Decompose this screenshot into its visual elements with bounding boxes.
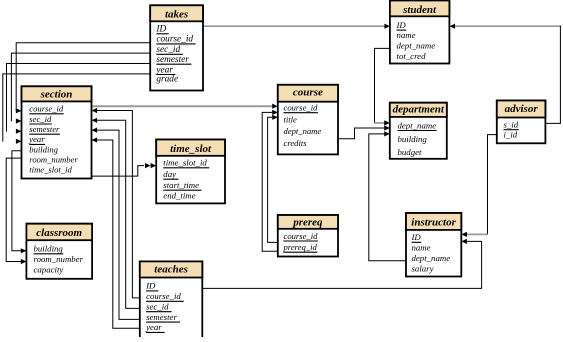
svg-text:year: year xyxy=(145,322,162,332)
table course xyxy=(278,85,338,155)
svg-text:section: section xyxy=(40,88,73,100)
table takes xyxy=(150,5,203,90)
svg-text:dept_name: dept_name xyxy=(284,126,322,136)
svg-text:name: name xyxy=(397,30,416,40)
svg-text:time_slot_id: time_slot_id xyxy=(163,158,207,168)
svg-text:time_slot_id: time_slot_id xyxy=(29,165,72,175)
wire course.dept_name to department xyxy=(338,125,390,138)
svg-text:year: year xyxy=(28,134,45,144)
wire takes.semester to section.semester xyxy=(7,64,151,134)
svg-text:start_time: start_time xyxy=(163,180,199,190)
svg-text:name: name xyxy=(412,243,431,253)
wire takes.year to section.year xyxy=(3,74,150,144)
svg-text:course_id: course_id xyxy=(284,231,319,241)
svg-text:semester: semester xyxy=(156,55,189,65)
svg-text:sec_id: sec_id xyxy=(156,45,180,55)
table time_slot xyxy=(156,140,225,204)
wire instructor.dept_name to department xyxy=(369,131,406,261)
svg-text:dept_name: dept_name xyxy=(397,40,436,50)
svg-text:course_id: course_id xyxy=(284,103,319,113)
svg-text:day: day xyxy=(163,169,176,179)
svg-text:sec_id: sec_id xyxy=(146,302,169,312)
svg-text:course_id: course_id xyxy=(146,291,181,301)
svg-text:semester: semester xyxy=(146,312,177,322)
svg-text:salary: salary xyxy=(412,263,434,273)
svg-text:course_id: course_id xyxy=(29,104,64,114)
wire teaches.year to section.year xyxy=(92,137,140,328)
svg-text:department: department xyxy=(393,104,445,116)
svg-text:title: title xyxy=(284,115,298,125)
svg-text:course_id: course_id xyxy=(156,35,193,45)
table prereq xyxy=(278,215,338,257)
svg-text:room_number: room_number xyxy=(29,155,78,165)
table department xyxy=(390,103,447,159)
svg-text:ID: ID xyxy=(396,20,407,30)
wire section.time_slot_id to time_slot xyxy=(92,163,157,176)
wire takes.ID to student.ID xyxy=(203,24,390,29)
svg-text:prereq: prereq xyxy=(292,217,323,229)
wire student.dept_name to department xyxy=(375,48,390,125)
table classroom xyxy=(26,224,92,279)
svg-text:sec_id: sec_id xyxy=(29,114,52,124)
svg-text:ID: ID xyxy=(411,232,422,242)
svg-text:ID: ID xyxy=(155,25,166,35)
svg-text:building: building xyxy=(398,134,428,144)
svg-text:takes: takes xyxy=(165,9,188,21)
wire prereq.prereq_id to course xyxy=(262,110,278,252)
wire section.room_number to classroom.room_number xyxy=(6,158,26,264)
svg-text:ID: ID xyxy=(145,281,156,291)
svg-text:building: building xyxy=(29,144,58,154)
wire section.course_id to course.course_id xyxy=(92,104,278,109)
svg-text:advisor: advisor xyxy=(505,103,539,115)
svg-text:i_id: i_id xyxy=(504,130,518,140)
svg-text:end_time: end_time xyxy=(163,191,195,201)
svg-text:budget: budget xyxy=(398,147,422,157)
wire advisor.i_id to instructor.ID xyxy=(461,135,497,237)
svg-text:dept_name: dept_name xyxy=(398,120,437,130)
svg-text:s_id: s_id xyxy=(504,120,519,130)
svg-text:credits: credits xyxy=(284,138,308,148)
svg-text:building: building xyxy=(34,244,64,254)
wire takes.sec_id to section.sec_id xyxy=(11,53,150,124)
svg-text:room_number: room_number xyxy=(34,254,84,264)
wire teaches.ID to instructor.ID xyxy=(202,239,481,289)
svg-text:teaches: teaches xyxy=(154,264,188,276)
svg-text:capacity: capacity xyxy=(34,264,64,274)
table advisor xyxy=(497,101,546,144)
svg-text:dept_name: dept_name xyxy=(412,253,451,263)
svg-text:grade: grade xyxy=(156,75,178,85)
wire prereq.course_id to course xyxy=(268,115,278,243)
wire teaches.course_id to section.course_id xyxy=(92,108,140,298)
wire takes.course_id to section.course_id xyxy=(16,43,150,114)
wire teaches.sec_id to section.sec_id xyxy=(92,118,140,309)
svg-text:tot_cred: tot_cred xyxy=(397,51,427,61)
table instructor xyxy=(406,213,461,277)
svg-text:prereq_id: prereq_id xyxy=(283,242,318,252)
wire teaches.semester to section.semester xyxy=(92,128,140,320)
svg-text:time_slot: time_slot xyxy=(170,143,212,155)
wire advisor.s_id to student.ID xyxy=(449,24,560,124)
table student xyxy=(390,1,450,64)
table section xyxy=(22,86,92,178)
wire section.building to classroom.building xyxy=(12,151,27,254)
svg-text:course: course xyxy=(293,86,323,98)
svg-text:classroom: classroom xyxy=(36,227,82,239)
svg-text:instructor: instructor xyxy=(411,217,456,229)
svg-text:semester: semester xyxy=(29,124,60,134)
svg-text:student: student xyxy=(402,4,437,16)
table teaches xyxy=(140,261,203,338)
